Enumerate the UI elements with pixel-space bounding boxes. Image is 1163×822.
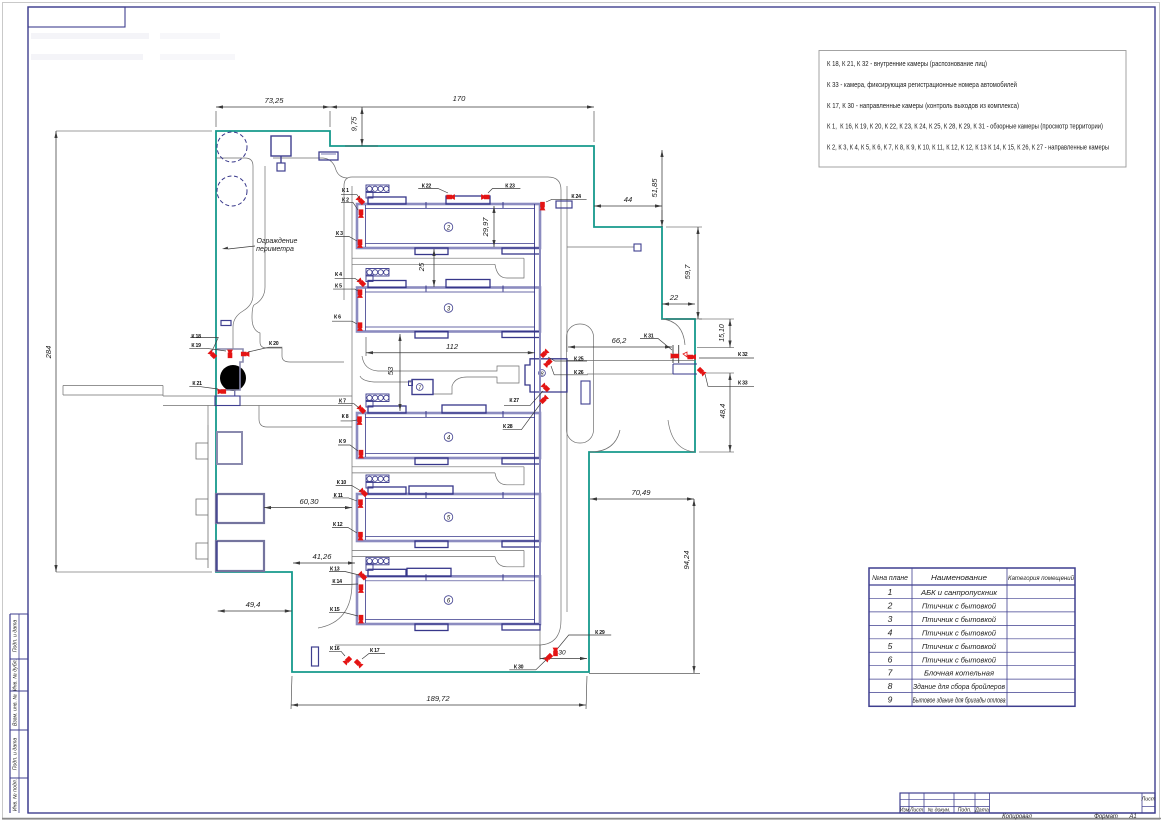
svg-text:59,7: 59,7 — [683, 264, 692, 280]
camera К 22 — [446, 194, 455, 200]
camera К 30 — [543, 652, 553, 662]
camera К 11 — [358, 499, 364, 508]
shed top-left — [271, 136, 291, 156]
abk building walls — [217, 349, 243, 390]
svg-text:9,75: 9,75 — [350, 116, 359, 132]
dim 66,2 — [568, 346, 672, 348]
svg-text:8: 8 — [540, 372, 544, 378]
svg-text:1: 1 — [888, 587, 893, 597]
small annex right of building 8 — [581, 381, 590, 404]
camera К 1 — [355, 195, 365, 205]
svg-text:44: 44 — [624, 195, 632, 204]
svg-text:Птичник с бытовкой: Птичник с бытовкой — [922, 601, 996, 610]
svg-text:К 25: К 25 — [574, 356, 584, 362]
camera К 17 — [353, 658, 363, 668]
svg-text:53: 53 — [386, 366, 395, 375]
svg-text:К 13: К 13 — [330, 567, 340, 573]
svg-text:К 30: К 30 — [514, 665, 524, 671]
number circle 6 — [444, 596, 453, 605]
camera К 28 — [539, 394, 549, 404]
camera К 6 — [357, 322, 363, 331]
equipment box building 3 (ptichnik) — [366, 269, 389, 277]
svg-text:К 19: К 19 — [191, 343, 201, 349]
camera К 33 — [696, 366, 706, 376]
svg-text:К 10: К 10 — [337, 480, 347, 486]
number circle 5 — [444, 513, 453, 522]
number circle 3 — [444, 304, 453, 313]
camera К 8 — [357, 416, 363, 425]
svg-text:К 7: К 7 — [339, 399, 346, 405]
camera К 13 — [357, 571, 367, 581]
road to right gate — [567, 360, 695, 362]
dim 60,30 — [264, 507, 352, 509]
svg-text:К 32: К 32 — [738, 352, 748, 358]
svg-text:Инв. № подл.: Инв. № подл. — [13, 779, 19, 811]
svg-text:Лист: Лист — [1141, 797, 1156, 803]
svg-text:К 15: К 15 — [330, 607, 340, 613]
building 5 (ptichnik) — [357, 494, 540, 541]
svg-text:284: 284 — [44, 346, 53, 360]
svg-text:К 17: К 17 — [370, 648, 380, 654]
camera К 7 — [356, 404, 366, 414]
svg-text:К 27: К 27 — [509, 398, 519, 404]
svg-text:№ докум.: № докум. — [928, 808, 951, 814]
svg-text:А1: А1 — [1128, 814, 1136, 820]
dim 51,85 — [661, 150, 663, 227]
svg-text:48,4: 48,4 — [718, 404, 727, 419]
svg-text:25: 25 — [417, 262, 426, 272]
camera К 27 — [540, 382, 550, 392]
svg-text:К 24: К 24 — [571, 194, 581, 200]
camera К 19 — [227, 350, 233, 359]
svg-text:К 28: К 28 — [503, 424, 513, 430]
svg-text:К 6: К 6 — [334, 315, 341, 321]
svg-text:К 1, К 16, К 19, К 20, К 22,: К 1, К 16, К 19, К 20, К 22, К 23, К 24,… — [827, 122, 1103, 131]
svg-text:АБК и санпропускник: АБК и санпропускник — [920, 588, 998, 597]
svg-text:Птичник с бытовкой: Птичник с бытовкой — [922, 642, 996, 651]
camera К 3 — [357, 239, 363, 248]
dim 73,25 — [216, 106, 330, 108]
small shed top right — [556, 201, 572, 208]
equipment box building 6 (ptichnik) — [366, 557, 389, 565]
svg-text:Здание для сбора бройлеров: Здание для сбора бройлеров — [913, 682, 1005, 691]
svg-text:К 23: К 23 — [505, 184, 515, 190]
building 7 boiler house — [412, 380, 433, 395]
svg-text:Изм: Изм — [900, 808, 910, 814]
perimeter fence — [216, 131, 695, 672]
sign near entrance — [319, 152, 338, 160]
svg-text:Наименование: Наименование — [931, 573, 987, 582]
camera К 15 — [358, 615, 364, 624]
continuous right gallery line — [534, 204, 536, 624]
svg-text:Подп. и дата: Подп. и дата — [13, 620, 19, 653]
faint ghost text rows — [31, 33, 149, 39]
title block — [900, 793, 1155, 813]
dim 53 — [399, 334, 401, 411]
camera К 12 — [358, 532, 364, 541]
building 8 broiler collection — [525, 359, 567, 392]
camera К 5 — [357, 289, 363, 298]
storage building A — [216, 494, 264, 523]
camera К 16 — [342, 655, 352, 665]
svg-text:Инв. № дубл.: Инв. № дубл. — [13, 659, 19, 691]
boiler strip roads — [362, 356, 519, 394]
svg-text:периметра: периметра — [256, 246, 294, 253]
svg-text:Птичник с бытовкой: Птичник с бытовкой — [922, 628, 996, 637]
equipment box building 2 (ptichnik) — [366, 185, 389, 193]
camera К 9 — [358, 450, 364, 459]
svg-text:189,72: 189,72 — [426, 694, 450, 703]
camera К 14 — [358, 584, 364, 593]
svg-text:41,26: 41,26 — [312, 552, 332, 561]
dim 284 — [55, 131, 57, 572]
dim 94,24 — [693, 499, 695, 673]
svg-text:7: 7 — [418, 385, 422, 391]
svg-text:Блочная котельная: Блочная котельная — [924, 669, 994, 678]
dim 44 — [594, 205, 662, 207]
svg-text:60,30: 60,30 — [299, 497, 319, 506]
flag box — [634, 244, 641, 251]
building 6 (ptichnik) — [357, 576, 540, 624]
camera К 26 — [543, 358, 553, 368]
dim 189,72 — [291, 704, 586, 706]
svg-text:К 14: К 14 — [332, 579, 342, 585]
dim 25 — [433, 249, 435, 287]
dim 70,49 — [590, 498, 694, 500]
dim 112 — [365, 337, 367, 356]
dashed circle 1 — [217, 132, 247, 162]
svg-text:К 17, К 30 - направленные каме: К 17, К 30 - направленные камеры (контро… — [827, 101, 1019, 110]
svg-text:Ограждение: Ограждение — [257, 237, 298, 245]
dim 22 — [662, 303, 695, 305]
dashed circle 2 — [217, 176, 247, 206]
svg-text:Категория помещений: Категория помещений — [1008, 574, 1074, 582]
shed stem box — [277, 163, 285, 171]
camera К 23 — [481, 194, 490, 200]
svg-text:К 26: К 26 — [574, 370, 584, 376]
svg-text:4: 4 — [888, 627, 893, 637]
comb road edge — [196, 425, 208, 568]
svg-text:К 3: К 3 — [336, 231, 343, 237]
svg-text:8: 8 — [888, 681, 893, 691]
svg-text:К 12: К 12 — [333, 522, 343, 528]
road island right of buildings — [567, 324, 594, 443]
dim 49,4 — [218, 610, 292, 612]
svg-text:94,24: 94,24 — [682, 550, 691, 569]
left stamp column — [10, 613, 28, 615]
svg-text:К 2, К 3, К 4, К 5, К 6, К 7,: К 2, К 3, К 4, К 5, К 6, К 7, К 8, К 9, … — [827, 143, 1109, 152]
ext line right of bottom teal corner — [589, 673, 700, 675]
abk small rect — [221, 321, 231, 326]
svg-text:30: 30 — [558, 650, 566, 657]
svg-text:К 1: К 1 — [342, 188, 349, 194]
svg-text:15,10: 15,10 — [719, 324, 726, 342]
black tank — [220, 365, 246, 391]
svg-text:29,97: 29,97 — [481, 217, 490, 238]
building 9 — [312, 647, 319, 666]
gap roads with ramps — [352, 257, 524, 259]
svg-text:К 33: К 33 — [738, 381, 748, 387]
dim 29,97 — [493, 206, 495, 247]
sheet bottom edge — [2, 818, 1161, 820]
dim 170 — [330, 106, 594, 108]
dim 15,10 — [729, 319, 731, 348]
svg-text:170: 170 — [453, 94, 466, 103]
svg-text:К 18: К 18 — [191, 334, 201, 340]
svg-text:К 2: К 2 — [342, 198, 349, 204]
svg-text:К 11: К 11 — [334, 493, 343, 499]
svg-text:К 18, К 21, К 32 - внутренние: К 18, К 21, К 32 - внутренние камеры (ра… — [827, 59, 987, 68]
roads below abk — [208, 406, 352, 428]
svg-text:К 16: К 16 — [330, 646, 340, 652]
svg-text:К 22: К 22 — [422, 184, 432, 190]
camera К 32 — [687, 354, 696, 360]
gate assembly right — [672, 345, 674, 363]
road corner arcs bottom — [335, 620, 561, 645]
equipment box building 4 (ptichnik) — [366, 394, 389, 402]
camera К 29 — [553, 648, 559, 657]
camera К 31 — [671, 353, 680, 359]
svg-text:К 20: К 20 — [269, 341, 279, 347]
svg-text:112: 112 — [446, 342, 459, 351]
svg-text:49,4: 49,4 — [246, 600, 261, 609]
number circle 4 — [444, 433, 453, 442]
svg-text:К 21: К 21 — [192, 381, 202, 387]
svg-text:К 5: К 5 — [335, 284, 342, 290]
camera К 2 — [358, 209, 364, 218]
dim 48,4 — [729, 373, 731, 452]
camera К 18 — [207, 349, 217, 359]
svg-text:Бытовое здание для бригады отл: Бытовое здание для бригады отлова — [913, 696, 1006, 705]
svg-text:22: 22 — [669, 293, 679, 302]
building 3 (ptichnik) — [357, 288, 540, 332]
gate lens mark — [683, 352, 687, 357]
camera К 24 — [540, 202, 546, 211]
camera К 10 — [358, 487, 368, 497]
svg-text:№на плане: №на плане — [872, 575, 908, 582]
storage building B — [216, 541, 264, 571]
svg-text:Лист: Лист — [909, 808, 924, 814]
abk lower rect — [215, 396, 240, 406]
svg-text:К 9: К 9 — [339, 439, 346, 445]
building 4 (ptichnik) — [357, 413, 540, 458]
camera К 4 — [356, 277, 366, 287]
svg-text:66,2: 66,2 — [612, 336, 628, 345]
gate post bottom — [539, 645, 541, 660]
svg-text:5: 5 — [888, 641, 893, 651]
abk square building — [217, 432, 242, 464]
svg-text:К 31: К 31 — [644, 334, 654, 340]
svg-text:Копировал: Копировал — [1002, 814, 1032, 820]
room table — [869, 568, 1075, 706]
svg-text:Птичник с бытовкой: Птичник с бытовкой — [922, 615, 996, 624]
legend box — [819, 51, 1126, 168]
svg-text:70,49: 70,49 — [631, 488, 651, 497]
equipment box building 5 (ptichnik) — [366, 475, 389, 483]
svg-text:6: 6 — [888, 654, 893, 664]
svg-text:Птичник с бытовкой: Птичник с бытовкой — [922, 655, 996, 664]
abk road to buildings — [282, 348, 344, 362]
svg-text:73,25: 73,25 — [264, 96, 284, 105]
svg-text:Формат: Формат — [1094, 814, 1118, 820]
svg-text:К 8: К 8 — [342, 414, 349, 420]
number circle 2 — [444, 223, 453, 232]
camera К 20 — [241, 351, 250, 357]
svg-text:Подп. и дата: Подп. и дата — [13, 738, 19, 771]
svg-text:Взам. инв. №: Взам. инв. № — [13, 694, 19, 726]
svg-text:7: 7 — [888, 668, 893, 678]
svg-text:К 29: К 29 — [595, 630, 605, 636]
svg-text:Подп.: Подп. — [958, 808, 972, 814]
camera К 25 — [539, 348, 549, 358]
top-left reference box — [28, 7, 125, 27]
svg-text:9: 9 — [888, 695, 893, 705]
building 2 (ptichnik) — [357, 204, 540, 248]
svg-text:3: 3 — [888, 614, 893, 624]
road loop around buildings — [344, 186, 352, 583]
entrance roads top-left — [216, 158, 253, 349]
dim 30 at bottom gate — [540, 658, 587, 660]
svg-text:51,85: 51,85 — [650, 178, 659, 198]
dim 41,26 — [293, 562, 355, 564]
svg-text:К 33 - камера, фиксирующая рег: К 33 - камера, фиксирующая регистрационн… — [827, 80, 1017, 89]
svg-text:К 4: К 4 — [335, 272, 342, 278]
left service roads — [63, 385, 163, 387]
road curves near right gate — [590, 319, 695, 452]
flag line — [567, 246, 634, 248]
svg-text:2: 2 — [887, 600, 893, 610]
dim 59,7 — [697, 227, 699, 319]
dim 9,75 — [361, 107, 363, 146]
camera К 21 — [218, 389, 227, 395]
svg-text:2: 2 — [446, 226, 451, 232]
svg-text:Дата: Дата — [974, 808, 989, 814]
